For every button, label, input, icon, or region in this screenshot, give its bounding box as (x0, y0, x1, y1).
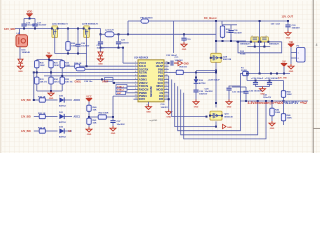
wire row G down to RC (112, 96, 114, 117)
capacitor C19 on mid rail drop (183, 34, 185, 37)
U1 ground pin (148, 102, 150, 105)
ground U1 (146, 105, 152, 114)
svg-text:GND: GND (270, 128, 275, 130)
wire pair row from x216 (216, 40, 246, 42)
wire col2 bottom (50, 85, 52, 91)
junction gate Q21 (263, 46, 265, 48)
junction row C (101, 78, 103, 80)
wire zener to cap (195, 83, 197, 89)
junction RC node (112, 116, 114, 118)
transistor Q16 BSS84 (51, 26, 59, 38)
wire row y116.5 c (65, 116, 73, 118)
junction gnd header (50, 90, 52, 92)
svg-text:GND: GND (227, 127, 232, 129)
ground below D17 (98, 57, 104, 66)
wire rail drop to RC header (221, 21, 223, 25)
junction C35 (269, 80, 271, 82)
capacitor C33 rail end (287, 21, 289, 24)
net label box row E (116, 88, 127, 91)
wire Q16 gate down (54, 35, 56, 54)
wire VB column (290, 47, 292, 64)
wire row y131 b (47, 130, 58, 132)
wire x123 down (122, 48, 124, 63)
diode D16 red (18, 59, 23, 63)
wire to zener D18 (195, 72, 197, 79)
svg-text:1: 1 (135, 62, 136, 64)
resistor R21 horizontal row (38, 114, 47, 118)
resistor R36 vertical (66, 41, 70, 52)
diode D17 red TVS (98, 52, 103, 56)
power port VB (288, 40, 294, 48)
svg-text:BSS84LT1: BSS84LT1 (269, 42, 280, 45)
junction Q19 gate (206, 116, 208, 118)
wire to red diode (100, 48, 102, 52)
wire pair loop return (238, 42, 282, 53)
wire gates tie (247, 46, 270, 48)
wire pin to R38 (169, 71, 175, 73)
inductor L2 (101, 33, 106, 35)
fuse F3 on 3V3 rail (242, 71, 250, 75)
svg-text:ADIN0: ADIN0 (139, 74, 148, 78)
capacitor C22 on x100 (100, 34, 102, 41)
svg-text:NE64ABC: NE64ABC (150, 86, 153, 97)
svg-text:15: 15 (165, 91, 167, 93)
junction rail C col (77, 28, 79, 30)
svg-text:+C28 100uF: +C28 100uF (208, 80, 221, 82)
svg-text:BZT52: BZT52 (59, 136, 66, 138)
wire R40 to R41 (88, 113, 90, 118)
wire row y131 c (65, 130, 73, 132)
wire VL stem (48, 59, 50, 60)
ground resistor array (48, 91, 54, 100)
svg-text:VCC: VCC (86, 94, 92, 98)
svg-text:12V_BID: 12V_BID (21, 116, 31, 119)
svg-text:BSS138: BSS138 (223, 59, 232, 61)
junction rail R col (67, 28, 69, 30)
svg-text:10n/50V: 10n/50V (81, 46, 90, 48)
svg-text:VL: VL (47, 51, 51, 55)
svg-text:BZT52: BZT52 (199, 83, 206, 85)
svg-text:100/16V: 100/16V (199, 94, 208, 96)
capacitor C20 vertical (77, 29, 79, 44)
svg-text:DC_Boost: DC_Boost (204, 16, 217, 20)
svg-text:GND: GND (166, 116, 171, 118)
ground C19 (181, 42, 187, 51)
svg-text:5: 5 (135, 74, 136, 76)
svg-text:16: 16 (165, 88, 167, 90)
junction loop left (237, 41, 239, 43)
svg-text:11: 11 (135, 95, 137, 97)
svg-text:10n/50V: 10n/50V (234, 33, 243, 35)
svg-text:BSS138: BSS138 (225, 116, 234, 118)
svg-text:R20 1K: R20 1K (38, 96, 46, 98)
svg-text:10K 1%: 10K 1% (65, 81, 73, 83)
wire power stem (29, 17, 31, 19)
wire pair row y41.8 (236, 41, 282, 43)
wire C27 to gnd (195, 92, 197, 99)
svg-text:9: 9 (135, 88, 136, 90)
svg-text:12: 12 (135, 98, 137, 100)
wire bus2 pin17 to Q19 gate (172, 79, 207, 116)
svg-text:R38 1K: R38 1K (180, 67, 188, 69)
svg-text:PB2: PB2 (158, 74, 164, 78)
svg-text:GND: GND (111, 133, 116, 135)
wire to FB1 (128, 20, 141, 22)
wire Q19 below (215, 121, 217, 126)
wire Q20 gate stub (254, 42, 256, 47)
wire rail drop through pair gap (259, 21, 261, 74)
resistor R33 pull-down (35, 76, 39, 85)
wire C25 to gnd (174, 62, 179, 64)
resistor R32 pull-up (60, 60, 64, 70)
resistor R45 (270, 107, 274, 117)
capacitor C34 (255, 81, 257, 82)
svg-text:GND: GND (286, 37, 291, 39)
junction mid rail x118 (118, 33, 120, 35)
junction zener tap (195, 71, 197, 73)
junction 3V3 x259 (259, 73, 261, 75)
svg-text:GND: GND (18, 71, 23, 73)
wire col1 mid (36, 69, 38, 77)
capacitor C16 (23, 19, 25, 25)
net label box row D (116, 85, 127, 88)
svg-text:5V: 5V (282, 59, 285, 63)
svg-text:8: 8 (135, 85, 136, 87)
svg-text:FUSE: FUSE (241, 70, 247, 72)
resistor R39 1K horizontal (62, 65, 73, 67)
svg-text:GND: GND (184, 63, 189, 65)
svg-text:3: 3 (135, 68, 136, 70)
wire relay to diode (19, 47, 21, 59)
junction cap C17 on rail (34, 28, 36, 30)
svg-text:12V_BID: 12V_BID (21, 99, 31, 102)
capacitor C17 (34, 19, 36, 25)
svg-text:100/16V: 100/16V (175, 60, 184, 62)
svg-text:10n/50V: 10n/50V (117, 124, 126, 126)
connector P3 (297, 48, 306, 63)
junction C21 bottom (230, 40, 232, 42)
svg-text:C36 10n/50V: C36 10n/50V (249, 91, 262, 93)
wire P3 pin1 (291, 52, 297, 54)
junction R44 net (283, 100, 285, 102)
transistor Q20 BSS84 pair left (250, 37, 260, 43)
svg-text:C28 10n: C28 10n (84, 81, 93, 83)
capacitor C31 (226, 88, 231, 90)
transistor Q18 BSS138 (210, 53, 223, 62)
svg-text:12V_BID: 12V_BID (21, 130, 31, 133)
junction pin22 (168, 62, 170, 64)
wire cap header (24, 18, 35, 20)
junction x216 cap row (215, 70, 217, 72)
wire net 3V3MCU (240, 100, 308, 102)
resistor R44 (281, 90, 285, 99)
svg-text:100n/XV: 100n/XV (263, 97, 272, 99)
ground bus1 (166, 110, 172, 119)
junction R36 header (67, 53, 69, 55)
junction bus1 pin12 tie (168, 98, 170, 100)
svg-text:+C34 100uF: +C34 100uF (251, 77, 264, 80)
power port VDD top-left (26, 10, 32, 18)
wire pullup header (37, 59, 62, 61)
ground below D16 (18, 64, 24, 73)
svg-text:R22 1K: R22 1K (38, 127, 46, 129)
wire row y116.5 b (47, 116, 58, 118)
svg-text:100/25V: 100/25V (292, 28, 301, 30)
net label box row F (116, 91, 126, 94)
svg-text:100K: 100K (287, 94, 293, 96)
wire row y100 a (34, 99, 38, 101)
junction Q19 source (215, 126, 217, 128)
svg-text:BZT52: BZT52 (59, 105, 66, 107)
svg-text:FUSE: FUSE (240, 54, 246, 56)
wire gate header down to R39 wire (86, 54, 88, 67)
capacitor C21 right of R26 (230, 25, 232, 30)
wire U1 pin row C (76, 78, 134, 80)
wire rail to R36 (67, 29, 69, 41)
wire R45 bottom (271, 117, 273, 121)
junction cap header left (100, 47, 102, 49)
junction divider (88, 116, 90, 118)
wire bus3 pin16 to Q19 source (175, 83, 216, 127)
svg-text:+/N1#P3V: +/N1#P3V (283, 101, 299, 105)
resistor R41 (87, 117, 91, 126)
wire mid rail (114, 33, 216, 35)
resistor R20 horizontal row (38, 98, 47, 102)
wire to U1 pin 1 (123, 62, 134, 64)
svg-text:12V_BID: 12V_BID (4, 27, 15, 31)
wire Q17 gate down (86, 35, 88, 54)
svg-text:ADC0: ADC0 (74, 99, 81, 102)
wire U1 pin row port (85, 68, 134, 70)
wire x216 upper (215, 21, 217, 53)
junction power stem (29, 18, 31, 20)
diode D21 row (59, 114, 64, 119)
junction mid rail x184 (183, 33, 185, 35)
junction cap C16 on rail (23, 28, 25, 30)
junction cap header right (122, 47, 124, 49)
svg-text:100K: 100K (275, 112, 281, 114)
junction R39 wire (86, 65, 88, 67)
svg-text:100K: 100K (54, 65, 59, 67)
resistor R40 (87, 104, 91, 113)
svg-text:Q17B BSS84LT1: Q17B BSS84LT1 (82, 22, 99, 25)
junction col3 tap B (61, 75, 63, 77)
junction cap header mid (118, 47, 120, 49)
wire row y116.5 a (34, 116, 38, 118)
junction 3V3 x277 (276, 73, 278, 75)
svg-text:3: 3 (266, 35, 267, 37)
svg-text:R39 1K: R39 1K (74, 63, 82, 65)
junction R26 bottom (222, 40, 224, 42)
svg-text:18: 18 (165, 81, 167, 83)
junction col0 top (33, 71, 35, 73)
ground divider (86, 127, 92, 136)
svg-text:GND: GND (182, 49, 187, 51)
wire R38 to Q column (185, 71, 217, 73)
svg-text:12V_CLK: 12V_CLK (271, 24, 281, 26)
ground C31 (226, 100, 232, 109)
capacitor C23 on x118 (118, 34, 120, 41)
resistor R35 pull-down (60, 76, 64, 85)
wire U1 pin row B (44, 75, 134, 77)
junction col2 tap A (50, 71, 52, 73)
junction x216 pre Q19 (215, 102, 217, 104)
wire R41 bottom (88, 126, 90, 128)
transistor Q17 BSS84 (83, 26, 91, 38)
junction C36 bottom (245, 100, 247, 102)
svg-text:GND: GND (98, 64, 103, 66)
svg-text:Q16x BSS84LT1: Q16x BSS84LT1 (52, 22, 69, 25)
wire cap header (101, 47, 124, 49)
wire U1 pin row G (113, 95, 134, 97)
wire drop to 5v header (246, 74, 248, 81)
wire to R45 (271, 101, 273, 107)
wire C31 to gnd (228, 90, 230, 99)
junction R45 (271, 100, 273, 102)
ground C33 (285, 31, 291, 40)
junction col1 tap A (36, 71, 38, 73)
wire RC header y24.8 (222, 24, 237, 26)
wire U1 pin row A (34, 71, 134, 73)
ground R45 (269, 121, 275, 130)
ground right of C25 sideways (174, 61, 189, 66)
svg-text:1N/4148: 1N/4148 (22, 51, 31, 54)
wire FB branch up (127, 21, 129, 34)
ground caps 3V3 (260, 87, 266, 96)
power port 5V (281, 59, 287, 67)
red marker right of Q19 (223, 124, 233, 129)
wire Q21 gate stub (263, 42, 265, 47)
sheet border (312, 0, 314, 153)
svg-text:100K: 100K (40, 65, 45, 67)
svg-text:GND: GND (227, 106, 232, 108)
svg-text:RSTIN: RSTIN (139, 70, 147, 74)
wire x173 down (173, 21, 175, 53)
svg-text:100/16V: 100/16V (121, 43, 129, 45)
resistor R26 vertical top right (220, 25, 224, 39)
svg-text:GND: GND (289, 71, 294, 73)
wire gnd header resistors (37, 90, 62, 92)
svg-text:10: 10 (135, 91, 137, 93)
resistor R22 horizontal row (38, 129, 47, 133)
svg-text:ADC1: ADC1 (74, 116, 81, 119)
svg-text:VDD: VDD (27, 10, 33, 14)
wire col1 bottom (36, 85, 38, 91)
wire x216 mid (215, 62, 217, 107)
wire R36 to header (67, 52, 69, 54)
svg-text:10n/25V: 10n/25V (205, 91, 214, 93)
sheet border zone tick (313, 128, 320, 130)
wire bus5 pin14 long (181, 90, 258, 135)
ground C37 (110, 126, 116, 135)
junction col0 row1 (33, 99, 35, 101)
junction gate Q20 (254, 46, 256, 48)
diode D20 row (59, 97, 64, 102)
svg-text:GND: GND (49, 98, 54, 100)
junction zener top (195, 77, 197, 79)
svg-text:IO5: IO5 (159, 97, 164, 101)
svg-text:19: 19 (165, 78, 167, 80)
capacitor C37 (112, 117, 114, 120)
junction bus6 top (265, 100, 267, 102)
svg-text:VREF: VREF (102, 81, 109, 84)
svg-text:regGND: regGND (149, 120, 158, 122)
svg-text:L2 10uH: L2 10uH (105, 30, 114, 32)
svg-text:PB3: PB3 (158, 77, 164, 81)
svg-text:+C35 100/16V: +C35 100/16V (265, 78, 280, 80)
wire R39 to U1 pin (81, 65, 134, 67)
net label box on row C (105, 78, 114, 82)
junction VREF row (113, 82, 115, 84)
junction rail end (287, 20, 289, 22)
wire bus6 pin13 long (184, 93, 266, 139)
svg-text:100/XX: 100/XX (161, 107, 169, 109)
IC U1 NE64 main MCU (134, 56, 169, 101)
wire 5v header (247, 80, 284, 82)
svg-text:23: 23 (165, 65, 167, 67)
resistor R30 pull-up (35, 60, 39, 70)
wire col2 mid (50, 69, 52, 77)
wire col3 mid (61, 69, 63, 77)
svg-text:PB1: PB1 (158, 70, 164, 74)
svg-text:RST: RST (117, 93, 122, 95)
svg-text:13: 13 (165, 98, 167, 100)
wire row y131 a (34, 130, 38, 132)
resistor R46 (281, 113, 285, 123)
resistor R34 pull-down (49, 76, 53, 85)
wire U1 pin row VREF (112, 82, 134, 84)
wire divider to R42 (89, 116, 97, 118)
diode D22 row (59, 128, 64, 133)
wire col0 down (33, 72, 35, 100)
wire bus4 pin15 long (178, 74, 241, 131)
junction pair row x216 (215, 40, 217, 42)
power port VL (46, 51, 52, 59)
zener diode D18 (194, 79, 199, 83)
wire y87 branch (232, 86, 246, 88)
wire R44 bottom (283, 99, 285, 102)
capacitor C35 (269, 81, 271, 82)
junction bus5 top (257, 100, 259, 102)
wire row y100 b (47, 99, 58, 101)
wire x283 lower (283, 101, 285, 113)
svg-text:2: 2 (135, 65, 136, 67)
sheet left edge band (0, 0, 1, 153)
svg-text:10K 1%: 10K 1% (40, 81, 48, 83)
svg-text:12V_SW: 12V_SW (278, 78, 288, 80)
transistor Q19 BSS138 bottom (209, 111, 223, 120)
wire caps gnd header (256, 86, 270, 88)
svg-text:10K: 10K (93, 110, 97, 112)
svg-text:GND(: GND( (75, 80, 81, 83)
capacitor C36 column (245, 87, 247, 91)
wire row y100 c (65, 99, 73, 101)
ground zener column (193, 100, 199, 109)
svg-text:IOP3: IOP3 (139, 97, 146, 101)
wire P3 pin2 (291, 57, 297, 59)
port oval P1 (76, 67, 85, 71)
junction rail x259 (259, 20, 261, 22)
svg-text:4: 4 (316, 43, 318, 47)
grid background (0, 0, 320, 153)
junction FB riser (127, 33, 129, 35)
wire U1 pin row D (127, 85, 134, 87)
svg-text:GND: GND (146, 111, 151, 113)
svg-text:17: 17 (165, 85, 167, 87)
svg-text:VB: VB (289, 40, 293, 44)
transistor Q21 BSS84 pair right (260, 37, 270, 43)
svg-text:100K: 100K (287, 118, 293, 120)
